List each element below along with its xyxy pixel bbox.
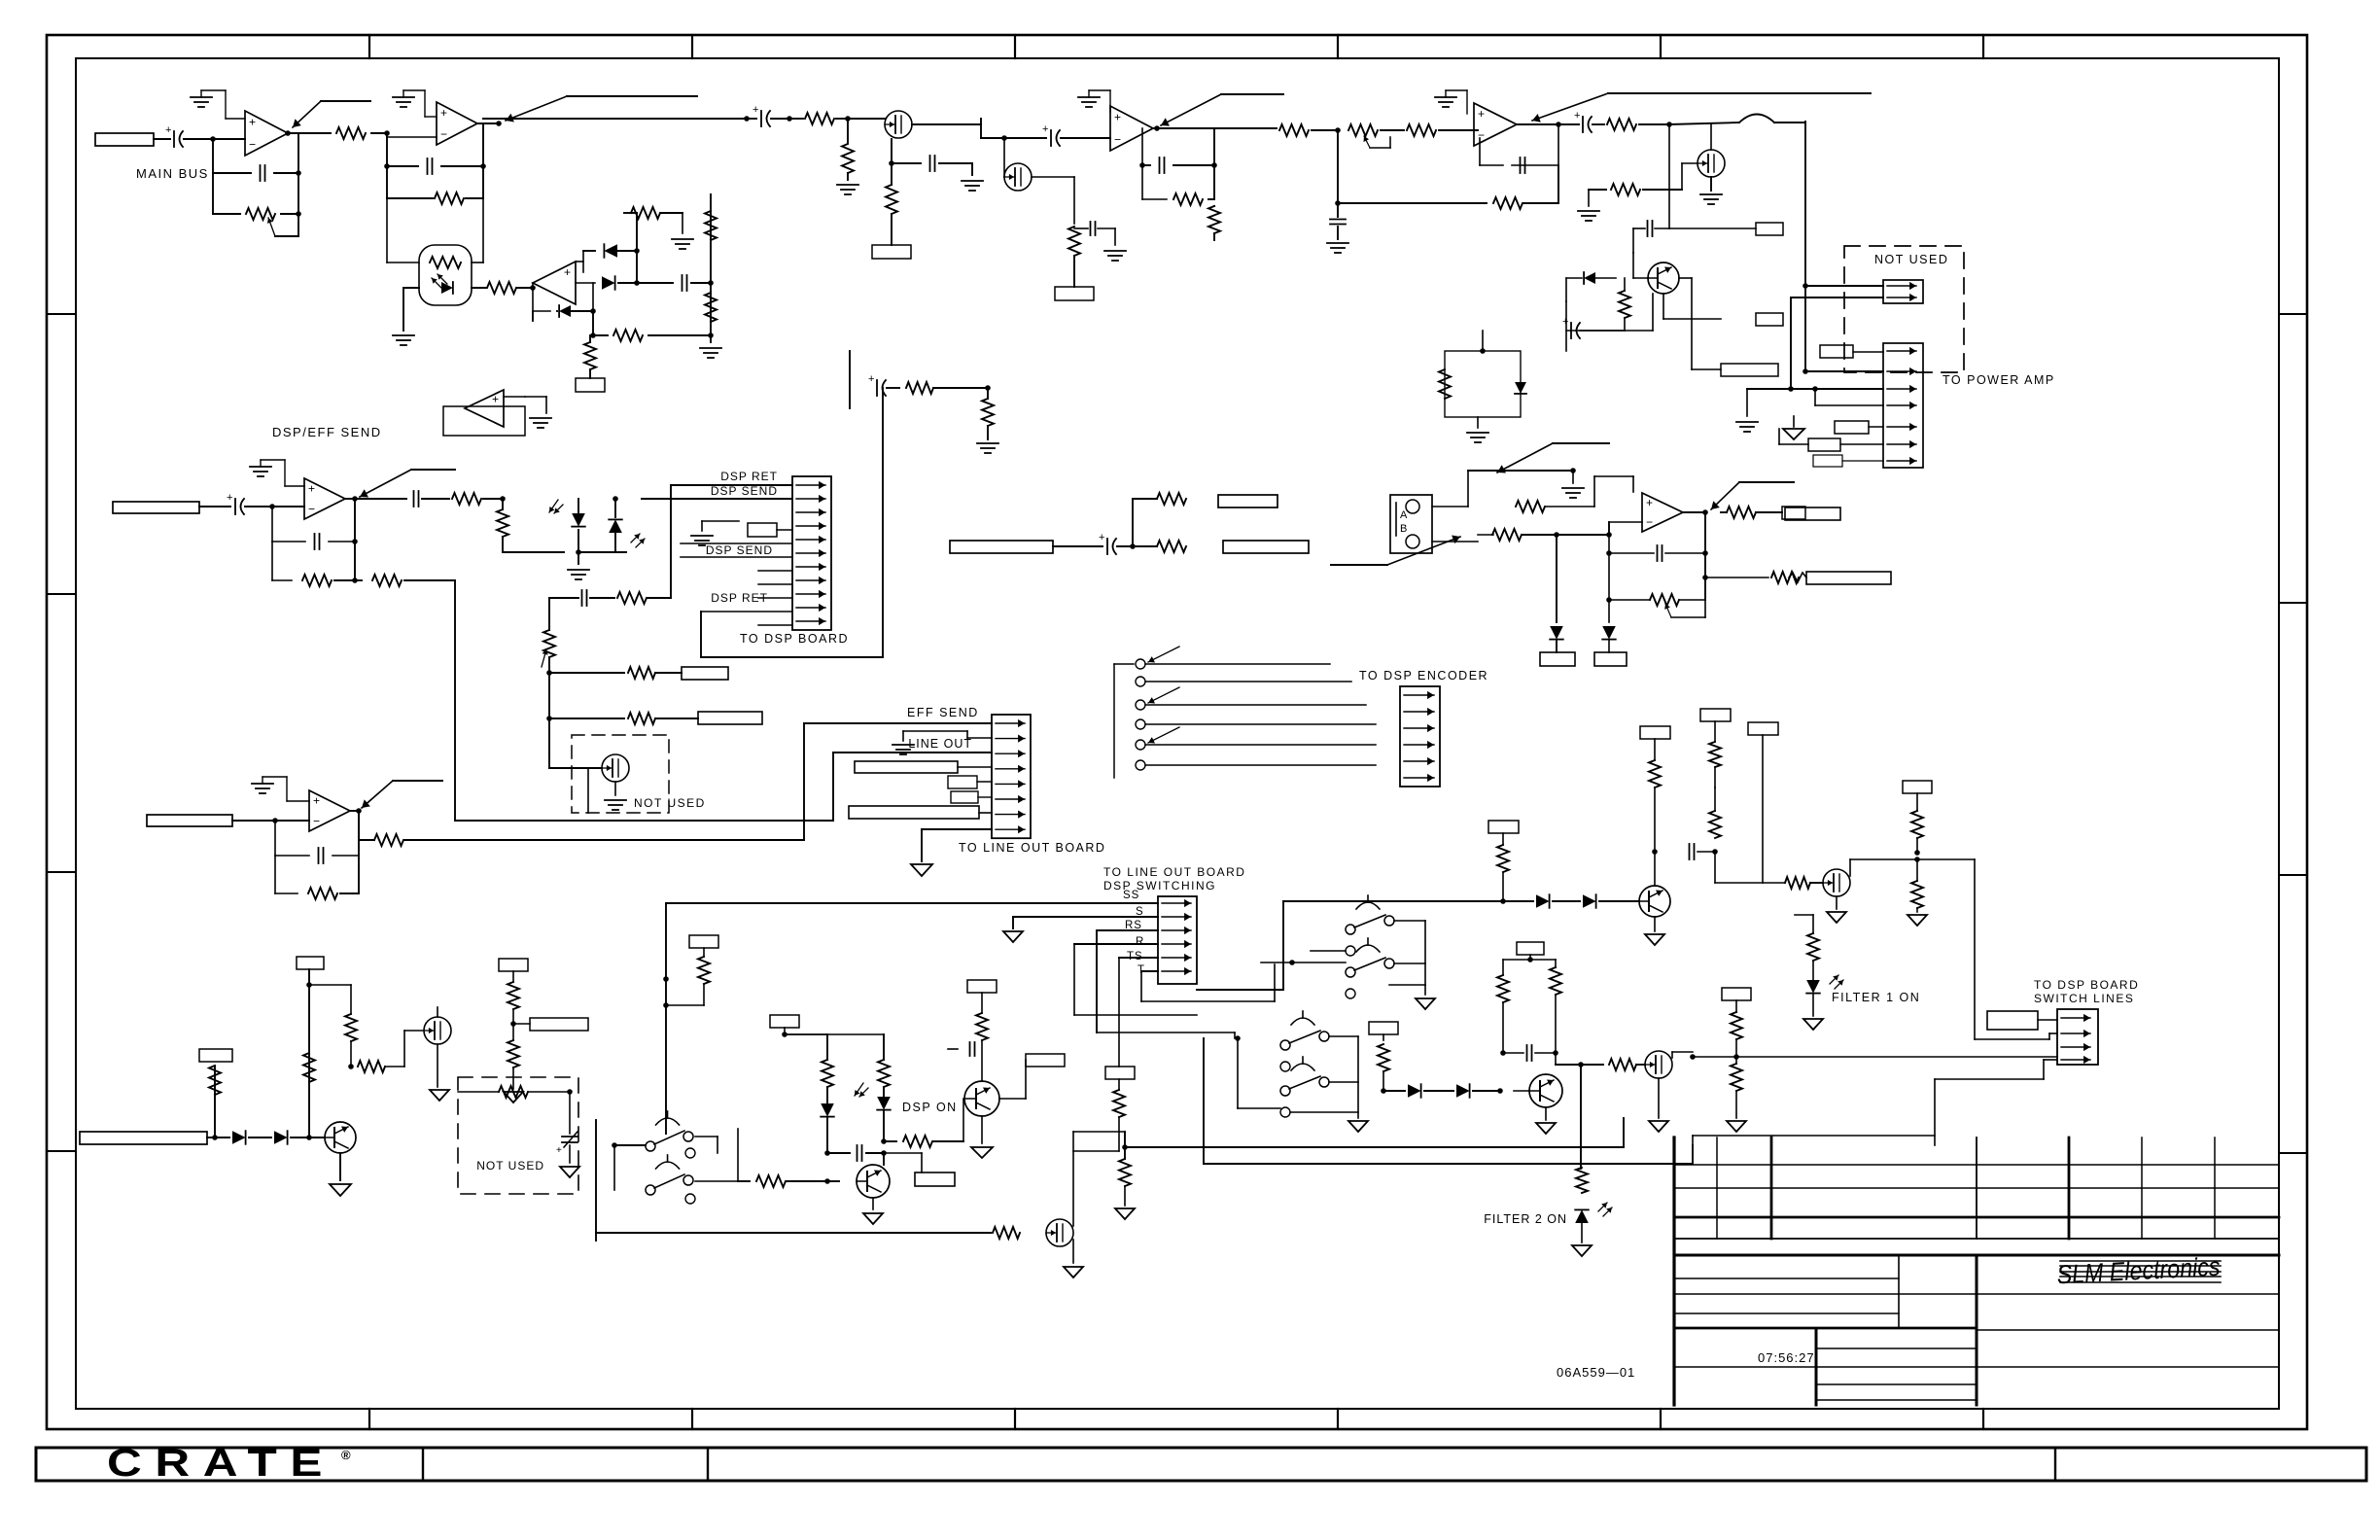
svg-text:DSP RET: DSP RET bbox=[720, 470, 778, 483]
svg-text:SWITCH LINES: SWITCH LINES bbox=[2034, 992, 2134, 1005]
svg-text:−: − bbox=[308, 503, 315, 516]
svg-text:+: + bbox=[313, 794, 320, 808]
svg-text:NOT USED: NOT USED bbox=[1874, 253, 1948, 266]
svg-text:+: + bbox=[1099, 532, 1104, 543]
svg-text:+: + bbox=[165, 124, 171, 136]
svg-text:+: + bbox=[1646, 496, 1653, 509]
svg-text:MAIN BUS: MAIN BUS bbox=[136, 166, 209, 181]
svg-text:−: − bbox=[249, 138, 256, 152]
svg-text:A: A bbox=[1400, 509, 1408, 521]
svg-text:TS: TS bbox=[1127, 951, 1143, 962]
svg-text:+: + bbox=[1042, 123, 1048, 135]
svg-text:+: + bbox=[308, 482, 315, 496]
svg-text:TO DSP BOARD: TO DSP BOARD bbox=[2034, 978, 2139, 992]
svg-text:+: + bbox=[1574, 110, 1580, 122]
svg-text:+: + bbox=[227, 492, 232, 504]
svg-text:+: + bbox=[752, 104, 758, 116]
svg-text:DSP SEND: DSP SEND bbox=[711, 484, 778, 498]
svg-text:FILTER 2 ON: FILTER 2 ON bbox=[1484, 1212, 1567, 1226]
svg-text:+: + bbox=[1114, 111, 1121, 124]
svg-text:FILTER 1 ON: FILTER 1 ON bbox=[1832, 991, 1920, 1004]
svg-text:TO LINE OUT BOARD: TO LINE OUT BOARD bbox=[959, 841, 1105, 855]
svg-text:DSP SWITCHING: DSP SWITCHING bbox=[1103, 879, 1216, 892]
svg-text:SS: SS bbox=[1123, 890, 1139, 901]
svg-text:CRATE: CRATE bbox=[107, 1442, 335, 1485]
svg-text:−: − bbox=[440, 127, 447, 141]
svg-text:EFF SEND: EFF SEND bbox=[907, 706, 979, 719]
svg-text:NOT USED: NOT USED bbox=[476, 1159, 544, 1172]
svg-text:+: + bbox=[492, 393, 499, 406]
svg-text:LINE OUT: LINE OUT bbox=[908, 737, 972, 751]
svg-text:+: + bbox=[440, 106, 447, 120]
svg-text:07:56:27: 07:56:27 bbox=[1758, 1350, 1815, 1365]
svg-text:−: − bbox=[313, 815, 320, 828]
svg-text:TO POWER AMP: TO POWER AMP bbox=[1942, 373, 2055, 387]
svg-text:DSP/EFF SEND: DSP/EFF SEND bbox=[272, 425, 382, 439]
svg-text:B: B bbox=[1400, 523, 1407, 535]
svg-text:+: + bbox=[868, 373, 874, 385]
svg-text:−: − bbox=[1114, 133, 1121, 147]
svg-text:06A559—01: 06A559—01 bbox=[1557, 1365, 1635, 1380]
svg-text:DSP ON: DSP ON bbox=[902, 1101, 958, 1114]
svg-text:+: + bbox=[249, 116, 256, 129]
svg-text:TO LINE OUT BOARD: TO LINE OUT BOARD bbox=[1103, 865, 1245, 879]
svg-text:−: − bbox=[1478, 128, 1485, 142]
svg-text:R: R bbox=[1136, 936, 1144, 948]
svg-text:TO DSP ENCODER: TO DSP ENCODER bbox=[1359, 669, 1488, 682]
svg-text:+: + bbox=[556, 1145, 562, 1156]
svg-text:®: ® bbox=[341, 1448, 351, 1462]
svg-text:NOT USED: NOT USED bbox=[634, 796, 706, 810]
svg-text:+: + bbox=[564, 265, 571, 279]
svg-text:+: + bbox=[1478, 107, 1485, 121]
svg-text:−: − bbox=[1646, 515, 1653, 529]
svg-text:DSP SEND: DSP SEND bbox=[706, 543, 773, 557]
svg-text:TO DSP BOARD: TO DSP BOARD bbox=[740, 632, 849, 646]
